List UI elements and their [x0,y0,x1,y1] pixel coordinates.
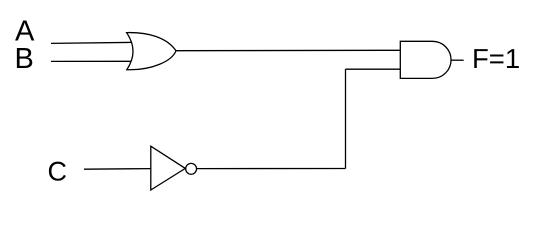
NOT gate U3 inversion bubble [186,163,197,174]
wire C (input C to NOT gate) [84,168,151,171]
wire OR output to AND gate input 1 [176,49,400,51]
wire B (input B to OR gate) [51,60,131,62]
svg-text:F=1: F=1 [472,43,520,74]
wire AND output to F=1 [451,59,464,61]
svg-text:C: C [48,157,68,187]
wire AND gate input 2 (horizontal from vertical riser) [346,68,401,70]
wire A (input A to OR gate) [51,42,132,43]
AND gate U2 [400,41,451,78]
wire NOT output to vertical riser [197,168,346,170]
wire vertical riser (NOT output up to AND input 2) [345,69,347,168]
NOT gate U3 triangle [151,146,186,190]
OR gate U1 [127,33,176,70]
svg-text:B: B [15,43,34,75]
